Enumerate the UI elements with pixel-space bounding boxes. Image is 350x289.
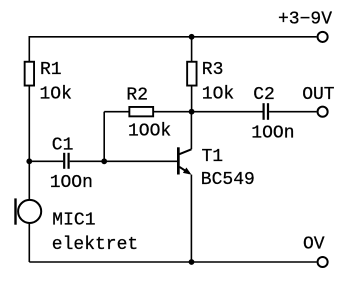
- svg-text:R3: R3: [202, 60, 224, 80]
- wire: bottom 0V rail: [29, 261, 316, 263]
- wire: C1 to base of T1: [70, 160, 177, 162]
- svg-text:T1: T1: [202, 147, 224, 167]
- terminal: OUT: [318, 107, 328, 117]
- svg-text:OUT: OUT: [302, 85, 335, 105]
- svg-text:OV: OV: [303, 235, 325, 255]
- svg-text:BC549: BC549: [201, 170, 255, 190]
- wire: +V top supply rail: [29, 36, 317, 38]
- svg-text:MIC1: MIC1: [52, 211, 95, 231]
- svg-text:+3−9V: +3−9V: [278, 10, 332, 30]
- wire: C2 to OUT terminal: [269, 111, 317, 113]
- capacitor C2: [264, 103, 268, 120]
- svg-text:1Ok: 1Ok: [202, 84, 234, 104]
- resistor R2: [129, 107, 153, 116]
- transistor T1: [177, 147, 191, 174]
- wire: emitter to 0V rail: [190, 175, 192, 262]
- junction: supply rail / R3: [189, 34, 195, 40]
- svg-text:elektret: elektret: [52, 235, 138, 255]
- wire: mid node (R2/R3/collector to C2): [104, 111, 262, 113]
- capacitor C1: [64, 153, 68, 169]
- svg-text:C2: C2: [253, 85, 275, 105]
- svg-text:1OOn: 1OOn: [50, 173, 93, 193]
- wire: C1 input wire (left): [29, 160, 63, 162]
- wire: left rail (input branch): [28, 37, 30, 262]
- wire: feedback branch down from R2: [103, 112, 105, 162]
- junction: left rail / C1: [26, 158, 32, 164]
- svg-text:C1: C1: [52, 135, 74, 155]
- junction: emitter / 0V rail: [189, 259, 195, 265]
- resistor R3: [187, 62, 196, 86]
- microphone MIC1 (electret capsule): [16, 198, 42, 224]
- wire: collector to mid node: [190, 112, 192, 150]
- resistor R1: [25, 62, 34, 86]
- svg-text:R1: R1: [40, 60, 62, 80]
- svg-text:1OOk: 1OOk: [128, 122, 171, 142]
- svg-text:1OOn: 1OOn: [251, 123, 294, 143]
- svg-text:R2: R2: [126, 86, 148, 106]
- junction: C1 / R2 / base node: [101, 158, 107, 164]
- junction: R2 / R3 / collector / C2 node: [189, 109, 195, 115]
- terminal: +3-9V supply: [318, 32, 328, 42]
- terminal: 0V: [318, 257, 328, 267]
- wire: R3 branch from supply rail: [191, 37, 193, 112]
- svg-text:1Ok: 1Ok: [40, 84, 72, 104]
